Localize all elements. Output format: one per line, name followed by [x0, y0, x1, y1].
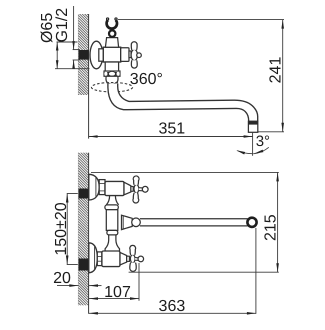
- threaded wall nipple (top view, filled): [79, 50, 89, 60]
- lower cross handle hub (front view): [130, 255, 135, 263]
- spout tip centerline: [252, 132, 254, 156]
- upper cross handle top arm (front view): [133, 176, 139, 185]
- lower valve taper cone (front view): [120, 252, 127, 265]
- spout outer edge (top view): [108, 84, 249, 122]
- dimension 107 extension line right: [138, 263, 140, 301]
- dimension G1/2 ticks: [73, 49, 80, 51]
- upper cross handle right arm (front view): [139, 188, 143, 191]
- lower cross handle right arm (front view): [135, 258, 139, 261]
- spout inner edge (top view): [118, 84, 258, 122]
- pipe from upper valve to center body (front view): [106, 196, 109, 205]
- svg-text:360°: 360°: [130, 71, 163, 88]
- svg-text:20: 20: [53, 270, 71, 287]
- spout connection cone (front view): [122, 215, 133, 229]
- lower valve body (front view): [102, 251, 120, 267]
- upper flange escutcheon (front view): [89, 174, 99, 200]
- svg-text:351: 351: [158, 121, 185, 138]
- svg-text:215: 215: [262, 214, 279, 241]
- upper valve taper cone (front view): [124, 182, 131, 195]
- valve bonnet (top view): [121, 48, 129, 62]
- dimension 215 extension lines: [91, 171, 279, 173]
- dimension 107 line with arrows: [89, 298, 139, 300]
- wall face line (front view): [88, 153, 90, 314]
- central mixer body (front view): [106, 210, 118, 231]
- lower collar ring (front view): [107, 230, 118, 235]
- dimension 241 bottom extension line: [258, 131, 284, 133]
- faucet body (top view): [103, 47, 120, 62]
- handle stem collar (top view): [129, 51, 131, 58]
- dimension 150±20 line with arrows: [66, 194, 68, 265]
- lower cross handle top arm (front view): [130, 245, 136, 254]
- upper valve body (front view): [105, 181, 124, 195]
- spout end cap (front view): [247, 218, 256, 227]
- svg-text:G1/2: G1/2: [54, 8, 71, 43]
- lower flange nut (front view): [97, 252, 102, 266]
- svg-text:3°: 3°: [256, 133, 270, 150]
- dimension Ø65 extension lines: [57, 41, 78, 43]
- svg-text:363: 363: [159, 298, 186, 315]
- wall section hatching (front view): [78, 153, 88, 306]
- spout aerator tip (top view): [248, 121, 257, 132]
- upper collar ring (front view): [105, 205, 118, 210]
- spout ball joint (front view): [132, 218, 141, 227]
- threaded wall nipple lower (front view, filled): [79, 259, 89, 271]
- upper handle stem (front view): [131, 187, 133, 192]
- wall flange escutcheon (top view): [90, 41, 103, 69]
- dimension G1/2 leader lines with arrows: [73, 6, 75, 50]
- dimension Ø65 line with arrows: [56, 42, 58, 69]
- wall face line (top view): [88, 14, 90, 139]
- 3 deg swing arc right with arrow: [253, 147, 269, 153]
- svg-text:241: 241: [267, 57, 284, 84]
- spout socket cup (top view): [106, 76, 118, 84]
- shower hook holder (top view): [107, 20, 117, 29]
- 3 deg swing arc left with arrow: [237, 151, 252, 154]
- lower flange escutcheon (front view): [89, 243, 98, 273]
- spout tube white fill (top view): [108, 84, 258, 122]
- dimension 20 line with outside arrows: [57, 285, 78, 287]
- upper flange nut (front view): [99, 180, 105, 195]
- diverter ring knob (top view): [109, 30, 115, 36]
- spout crown nut (top view): [104, 71, 120, 76]
- dimension 351 line with arrows: [89, 136, 253, 138]
- rotation dashed ellipse 360 deg: [91, 83, 132, 92]
- dimension 241 top extension line: [118, 19, 284, 21]
- cross handle top arm (top view): [131, 42, 137, 50]
- dimension 215 line with arrows: [277, 172, 279, 272]
- faucet body neck (top view): [105, 38, 118, 48]
- dimension 363 extension line right: [255, 228, 257, 314]
- spout tube (front view): [140, 218, 248, 220]
- pipe from center body to lower valve (front view): [105, 235, 109, 251]
- dimension 363 line with arrows: [89, 312, 256, 314]
- dimension 241 line with arrows: [282, 20, 284, 132]
- faucet body lower section (top view): [105, 62, 118, 71]
- lower cross handle bottom arm (front view): [130, 263, 136, 272]
- cross handle bottom arm (top view): [131, 60, 137, 68]
- lower handle stem (front view): [127, 256, 130, 261]
- wall section hatching (top view): [78, 14, 88, 95]
- upper cross handle hub (front view): [134, 185, 139, 194]
- upper cross handle bottom arm (front view): [133, 193, 139, 203]
- cross handle hub (top view): [131, 49, 137, 60]
- flange nut (top view): [99, 49, 104, 61]
- cross handle front arm ball (top view): [137, 53, 142, 58]
- dimension 150±20 extension lines: [67, 193, 78, 195]
- threaded wall nipple upper (front view, filled): [79, 189, 89, 199]
